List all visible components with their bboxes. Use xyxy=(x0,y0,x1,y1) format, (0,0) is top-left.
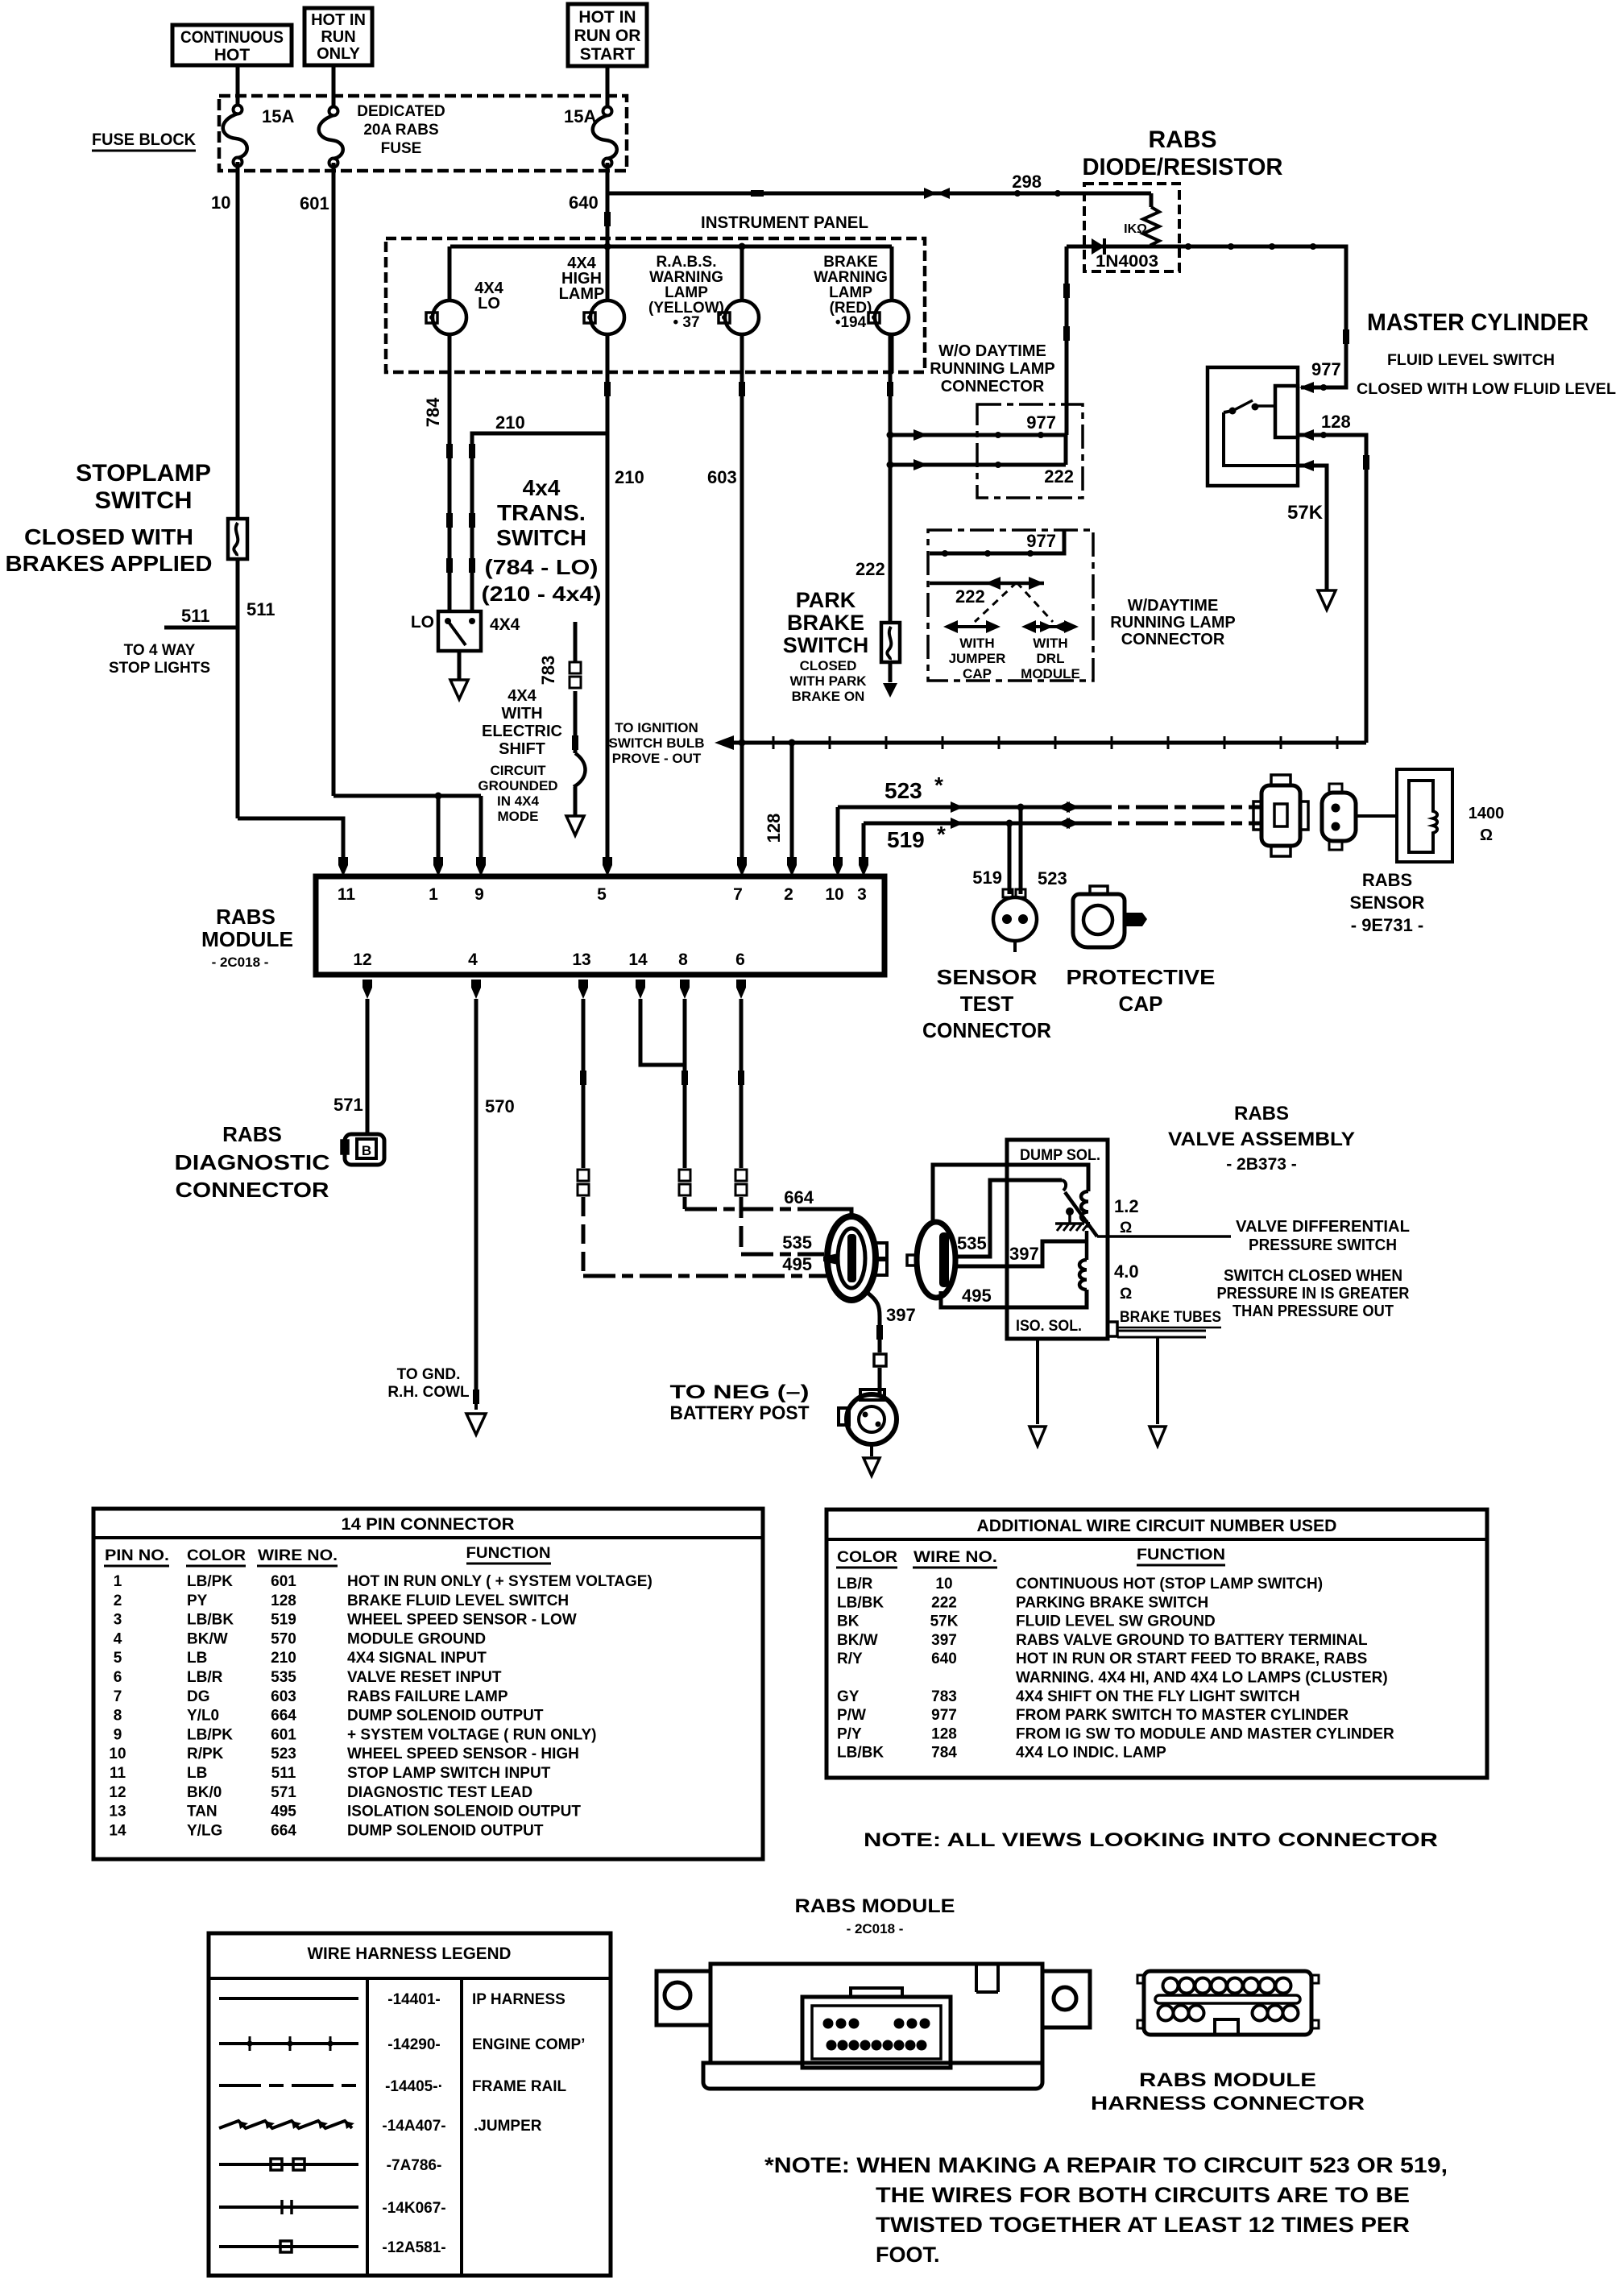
svg-text:R/PK: R/PK xyxy=(187,1746,224,1762)
with jumper cap double arrow xyxy=(943,620,1000,633)
svg-text:-14405-·: -14405-· xyxy=(385,2078,443,2095)
junction dots wire 298 xyxy=(1014,190,1021,197)
rabs module drawing xyxy=(657,1964,1090,2089)
svg-text:- 9E731 -: - 9E731 - xyxy=(1351,915,1424,935)
wire 128 horizontal xyxy=(729,741,1366,745)
svg-text:57K: 57K xyxy=(1287,502,1324,524)
resistor 1K xyxy=(1143,207,1159,246)
svg-text:• 37: • 37 xyxy=(673,314,699,331)
svg-text:BRAKE ON: BRAKE ON xyxy=(792,689,865,704)
svg-text:603: 603 xyxy=(271,1688,296,1705)
svg-text:CLOSED WITH: CLOSED WITH xyxy=(24,524,193,549)
protective cap symbol xyxy=(1073,886,1147,947)
svg-text:RABS MODULE: RABS MODULE xyxy=(1139,2069,1316,2091)
svg-text:(784 - LO): (784 - LO) xyxy=(485,555,599,579)
label 523* xyxy=(884,772,943,803)
svg-text:495: 495 xyxy=(782,1254,812,1274)
svg-text:SENSOR: SENSOR xyxy=(1350,893,1425,913)
fuse F1 15A xyxy=(223,106,247,167)
wire 977 into connector xyxy=(890,433,1065,437)
battery post ground arrow xyxy=(870,1444,873,1456)
wire 783 ground arrow xyxy=(566,816,584,835)
junction dot 601 pin1 xyxy=(435,793,442,800)
svg-text:222: 222 xyxy=(1044,466,1074,487)
label STOPLAMP SWITCH xyxy=(76,460,211,514)
svg-text:ADDITIONAL WIRE CIRCUIT NUMBER: ADDITIONAL WIRE CIRCUIT NUMBER USED xyxy=(977,1517,1337,1535)
svg-text:15A: 15A xyxy=(262,106,294,126)
brake tube nub xyxy=(1108,1322,1117,1336)
connector marks wire 664 xyxy=(681,1071,688,1085)
svg-text:CAP: CAP xyxy=(1119,992,1163,1016)
svg-text:PROTECTIVE: PROTECTIVE xyxy=(1067,965,1216,989)
legend codes xyxy=(382,1991,445,2256)
svg-text:STOP LAMP SWITCH INPUT: STOP LAMP SWITCH INPUT xyxy=(347,1765,551,1782)
wire 511 stub xyxy=(164,626,238,630)
svg-text:570: 570 xyxy=(485,1096,515,1116)
harness connector bottom pins right xyxy=(1253,2006,1299,2021)
label PROTECTIVE CAP xyxy=(1067,965,1216,1016)
sensor test connector symbol xyxy=(993,889,1037,952)
svg-text:HOT IN: HOT IN xyxy=(311,11,366,29)
svg-text:LO: LO xyxy=(411,613,434,632)
svg-text:640: 640 xyxy=(569,193,599,213)
svg-text:4x4: 4x4 xyxy=(523,475,561,500)
legend symbol frame rail (dash) xyxy=(219,2084,358,2087)
svg-text:TO NEG (–): TO NEG (–) xyxy=(670,1381,810,1403)
wire 298 into resistor xyxy=(1150,193,1154,207)
svg-text:1N4003: 1N4003 xyxy=(1096,252,1158,271)
iso solenoid coil xyxy=(1079,1260,1087,1290)
label TO NEG (-) BATTERY POST xyxy=(670,1381,810,1424)
junction dots 977 w/daytime xyxy=(942,550,948,557)
svg-text:BK/0: BK/0 xyxy=(187,1784,222,1801)
svg-text:ISO. SOL.: ISO. SOL. xyxy=(1016,1318,1082,1335)
svg-text:MODULE: MODULE xyxy=(1021,666,1080,681)
label WITH JUMPER CAP xyxy=(949,636,1006,681)
svg-text:DUMP SOLENOID OUTPUT: DUMP SOLENOID OUTPUT xyxy=(347,1822,544,1839)
svg-text:DUMP SOLENOID OUTPUT: DUMP SOLENOID OUTPUT xyxy=(347,1708,544,1725)
svg-text:FUSE BLOCK: FUSE BLOCK xyxy=(92,130,196,149)
svg-text:5: 5 xyxy=(597,885,607,904)
connector arrow 222 xyxy=(913,459,928,470)
svg-text:PIN NO.: PIN NO. xyxy=(105,1547,169,1564)
svg-text:RUNNING LAMP: RUNNING LAMP xyxy=(930,360,1055,378)
svg-text:LO: LO xyxy=(478,295,500,313)
wire continuous hot to fuse xyxy=(236,65,240,106)
wire 128 to pin 2 xyxy=(790,743,794,857)
svg-text:571: 571 xyxy=(333,1095,363,1115)
svg-text:511: 511 xyxy=(271,1765,296,1782)
svg-text:WARNING: WARNING xyxy=(649,269,723,286)
wire 523 pin 10 riser xyxy=(836,807,840,857)
svg-text:RUN: RUN xyxy=(321,28,355,46)
svg-text:WHEEL SPEED SENSOR - HIGH: WHEEL SPEED SENSOR - HIGH xyxy=(347,1746,579,1762)
svg-text:CONNECTOR: CONNECTOR xyxy=(1121,631,1225,648)
svg-text:Y/L0: Y/L0 xyxy=(187,1708,219,1725)
svg-text:397: 397 xyxy=(886,1305,916,1325)
svg-text:LB/BK: LB/BK xyxy=(187,1612,234,1629)
wire 10 to stoplamp switch xyxy=(236,162,240,519)
svg-text:WIRE HARNESS LEGEND: WIRE HARNESS LEGEND xyxy=(308,1945,512,1963)
svg-text:664: 664 xyxy=(271,1708,296,1725)
valve differential pressure switch line xyxy=(1097,1235,1231,1238)
14 pin connector table rows xyxy=(109,1573,652,1839)
svg-text:STOP LIGHTS: STOP LIGHTS xyxy=(109,660,210,677)
wire 495 dash-dot run xyxy=(583,1274,826,1278)
dashed V selector xyxy=(975,582,1053,622)
svg-text:IP HARNESS: IP HARNESS xyxy=(472,1991,565,2008)
connector marks wire 210 branch xyxy=(469,444,475,458)
svg-text:3: 3 xyxy=(114,1612,122,1629)
wire 664 dash-dot run xyxy=(685,1207,830,1211)
svg-text:535: 535 xyxy=(957,1233,987,1253)
RABS module box xyxy=(316,876,884,975)
svg-text:523: 523 xyxy=(271,1746,296,1762)
svg-text:784: 784 xyxy=(931,1745,957,1762)
label BRAKE WARNING LAMP (RED) 194 xyxy=(814,254,888,331)
svg-text:JUMPER: JUMPER xyxy=(949,651,1006,666)
svg-text:PARKING BRAKE SWITCH: PARKING BRAKE SWITCH xyxy=(1016,1594,1208,1611)
park brake ground arrow xyxy=(883,683,897,698)
svg-text:519: 519 xyxy=(271,1612,296,1629)
svg-text:SWITCH BULB: SWITCH BULB xyxy=(609,735,705,751)
svg-text:INSTRUMENT PANEL: INSTRUMENT PANEL xyxy=(701,213,868,232)
14 pin connector table xyxy=(93,1509,763,1859)
connector face pins row 1 xyxy=(823,2019,930,2029)
svg-text:W/O DAYTIME: W/O DAYTIME xyxy=(938,342,1046,360)
svg-text:RABS MODULE: RABS MODULE xyxy=(795,1895,955,1917)
svg-text:571: 571 xyxy=(271,1784,296,1801)
rabs sensor pigtail connector xyxy=(1322,784,1356,850)
valve harness connector (left oval) xyxy=(823,1216,887,1300)
svg-text:HARNESS CONNECTOR: HARNESS CONNECTOR xyxy=(1091,2093,1365,2114)
label RABS MODULE -2C018- bottom xyxy=(795,1895,955,1936)
indicator lamp brake warning xyxy=(868,246,909,373)
svg-text:NOTE: ALL VIEWS LOOKING INTO C: NOTE: ALL VIEWS LOOKING INTO CONNECTOR xyxy=(864,1829,1438,1851)
label W/DAYTIME RUNNING LAMP CONNECTOR xyxy=(1110,597,1236,648)
wire 397 to battery post xyxy=(878,1368,882,1394)
svg-text:CLOSED WITH LOW FLUID LEVEL: CLOSED WITH LOW FLUID LEVEL xyxy=(1357,381,1616,398)
label RABS MODULE -2C018- xyxy=(201,905,293,970)
svg-text:THAN PRESSURE OUT: THAN PRESSURE OUT xyxy=(1232,1303,1394,1320)
svg-text:LB/R: LB/R xyxy=(837,1576,873,1593)
connector arrow 57K xyxy=(1299,460,1314,471)
svg-text:DG: DG xyxy=(187,1688,210,1705)
svg-text:3: 3 xyxy=(857,885,867,904)
inline mark wire 298 xyxy=(751,190,764,197)
svg-text:4X4: 4X4 xyxy=(490,615,520,634)
svg-text:10: 10 xyxy=(109,1746,126,1762)
svg-text:210: 210 xyxy=(271,1650,296,1667)
master cylinder outer box xyxy=(1208,367,1298,486)
svg-text:222: 222 xyxy=(955,586,985,607)
svg-text:FUSE: FUSE xyxy=(381,140,422,157)
legend symbol IP harness (plain) xyxy=(219,1997,358,2000)
label CIRCUIT GROUNDED IN 4X4 MODE xyxy=(478,763,557,824)
wire 57K ground arrow xyxy=(1318,590,1336,610)
svg-text:WIRE NO.: WIRE NO. xyxy=(913,1549,997,1566)
svg-text:HOT IN: HOT IN xyxy=(578,8,636,27)
svg-text:TO IGNITION: TO IGNITION xyxy=(615,720,698,735)
wire to pin 1 xyxy=(437,796,441,857)
svg-text:PRESSURE SWITCH: PRESSURE SWITCH xyxy=(1249,1236,1397,1254)
svg-text:222: 222 xyxy=(931,1594,957,1611)
svg-text:128: 128 xyxy=(764,814,784,843)
svg-text:4X4 LO INDIC. LAMP: 4X4 LO INDIC. LAMP xyxy=(1016,1745,1166,1762)
label 519* xyxy=(887,822,946,852)
power source box CONTINUOUS HOT xyxy=(172,25,292,65)
connector mark wire 570 xyxy=(473,1390,479,1404)
svg-text:Ω: Ω xyxy=(1120,1286,1132,1303)
svg-text:RABS: RABS xyxy=(1234,1103,1289,1125)
svg-text:4X4: 4X4 xyxy=(507,687,536,705)
label RABS MODULE HARNESS CONNECTOR xyxy=(1091,2069,1365,2114)
junction dot 222 xyxy=(995,462,1001,468)
svg-text:2: 2 xyxy=(784,885,793,904)
svg-text:SWITCH CLOSED WHEN: SWITCH CLOSED WHEN xyxy=(1224,1267,1402,1285)
svg-text:PY: PY xyxy=(187,1593,208,1609)
svg-text:4X4 SIGNAL INPUT: 4X4 SIGNAL INPUT xyxy=(347,1650,487,1667)
valve assembly connector (right oval) xyxy=(907,1222,955,1298)
svg-text:570: 570 xyxy=(271,1630,296,1647)
svg-text:495: 495 xyxy=(962,1286,992,1306)
label TO IGNITION SWITCH BULB PROVE-OUT xyxy=(609,720,705,766)
svg-text:SHIFT: SHIFT xyxy=(499,740,545,758)
label PARK BRAKE SWITCH xyxy=(783,588,868,657)
wire to pin 9 xyxy=(479,796,483,857)
svg-text:5: 5 xyxy=(114,1650,122,1667)
junction dot 523 test drop xyxy=(1017,804,1025,811)
svg-text:BATTERY POST: BATTERY POST xyxy=(670,1402,810,1424)
wire 523 horizontal xyxy=(838,806,1079,810)
label 1400 ohm xyxy=(1469,805,1505,844)
svg-text:CIRCUIT: CIRCUIT xyxy=(491,763,547,778)
svg-text:4: 4 xyxy=(114,1630,122,1647)
svg-text:57K: 57K xyxy=(930,1613,959,1630)
svg-text:1: 1 xyxy=(114,1573,122,1590)
additional wire circuit table xyxy=(826,1510,1487,1778)
svg-text:TO 4 WAY: TO 4 WAY xyxy=(124,642,196,659)
harness connector top pin row xyxy=(1163,1978,1291,1994)
svg-text:210: 210 xyxy=(615,467,644,487)
wire 397 inside valve xyxy=(957,1241,1087,1266)
svg-text:P/Y: P/Y xyxy=(837,1725,862,1742)
svg-text:LB/PK: LB/PK xyxy=(187,1573,233,1590)
svg-text:14: 14 xyxy=(109,1822,126,1839)
svg-text:BK: BK xyxy=(837,1613,860,1630)
label CLOSED WITH BRAKES APPLIED xyxy=(6,524,213,576)
junction dot 128/603 xyxy=(739,739,746,747)
label BRAKE TUBES xyxy=(1118,1309,1221,1327)
wire harness legend table xyxy=(209,1933,611,2276)
wire 511 below switch xyxy=(236,559,240,818)
svg-text:519: 519 xyxy=(887,827,925,852)
lamp feed bus xyxy=(450,245,892,249)
svg-text:9: 9 xyxy=(474,885,484,904)
svg-text:9: 9 xyxy=(114,1726,122,1743)
svg-text:FLUID LEVEL SWITCH: FLUID LEVEL SWITCH xyxy=(1387,352,1555,369)
svg-text:Y/LG: Y/LG xyxy=(187,1822,222,1839)
svg-text:FROM PARK SWITCH TO MASTER CYL: FROM PARK SWITCH TO MASTER CYLINDER xyxy=(1016,1707,1348,1724)
connector squares wire 783 xyxy=(570,662,581,673)
label RABS DIODE/RESISTOR xyxy=(1083,126,1283,180)
svg-text:14: 14 xyxy=(628,951,648,969)
w/o daytime connector box xyxy=(977,404,1083,498)
svg-text:RABS: RABS xyxy=(1362,870,1412,890)
svg-text:DIAGNOSTIC: DIAGNOSTIC xyxy=(175,1150,330,1174)
with DRL module double arrow xyxy=(1021,620,1079,633)
junction dots on diode output xyxy=(1185,243,1191,250)
svg-text:B: B xyxy=(362,1143,371,1158)
harness connector bottom pins left xyxy=(1158,2006,1204,2021)
svg-text:MASTER CYLINDER: MASTER CYLINDER xyxy=(1367,309,1589,336)
svg-text:- 2C018 -: - 2C018 - xyxy=(847,1921,904,1936)
svg-text:BRAKES APPLIED: BRAKES APPLIED xyxy=(6,551,213,576)
svg-text:523: 523 xyxy=(1038,868,1067,888)
harness connector slot xyxy=(1155,1995,1300,2003)
inline connectors on 523 xyxy=(951,801,963,813)
svg-text:RUN OR: RUN OR xyxy=(574,27,641,45)
svg-text:-14290-: -14290- xyxy=(387,2036,441,2053)
svg-text:PRESSURE IN IS GREATER: PRESSURE IN IS GREATER xyxy=(1217,1285,1410,1303)
dump coil tail xyxy=(1087,1222,1090,1228)
wire 523 dash-dot to sensor xyxy=(1079,806,1260,810)
svg-text:.JUMPER: .JUMPER xyxy=(474,2118,542,2135)
switch contact hook xyxy=(1062,1180,1066,1191)
connector mark wire 640 xyxy=(604,212,611,226)
svg-text:DIAGNOSTIC TEST LEAD: DIAGNOSTIC TEST LEAD xyxy=(347,1784,532,1801)
connector face pins row 2 xyxy=(826,2040,927,2051)
jumper vertical 222-977 xyxy=(1064,435,1068,465)
engine comp ticks on 128 xyxy=(771,736,776,749)
svg-text:COLOR: COLOR xyxy=(187,1547,246,1564)
svg-text:•194: •194 xyxy=(835,314,867,331)
wire 535 run xyxy=(741,1253,824,1257)
connector arrow 128 xyxy=(1299,429,1314,441)
connector arrow 977 xyxy=(913,429,928,441)
svg-text:128: 128 xyxy=(271,1593,296,1609)
svg-text:DIODE/RESISTOR: DIODE/RESISTOR xyxy=(1083,154,1283,180)
svg-text:MODE: MODE xyxy=(498,809,539,824)
diode symbol 1N4003 xyxy=(1092,238,1104,255)
indicator lamp 4x4 lo xyxy=(426,246,466,373)
wire 784 xyxy=(448,334,452,611)
svg-text:14 PIN CONNECTOR: 14 PIN CONNECTOR xyxy=(342,1515,515,1534)
dump solenoid coil xyxy=(1081,1191,1088,1222)
svg-text:LB: LB xyxy=(187,1765,207,1782)
pressure switch arm xyxy=(1065,1192,1097,1236)
svg-text:GY: GY xyxy=(837,1688,860,1705)
label RABS SENSOR 9E731 xyxy=(1350,870,1425,935)
module connector face xyxy=(802,1988,951,2068)
label RABS VALVE ASSEMBLY -2B373- xyxy=(1168,1103,1355,1174)
wire 640 down to panel xyxy=(606,163,610,301)
svg-text:1: 1 xyxy=(429,885,438,904)
dump valve drain arrow xyxy=(1036,1339,1039,1424)
junction dot 977 master cylinder xyxy=(1320,384,1327,391)
connector mark wire 210 xyxy=(604,382,611,396)
svg-text:FLUID LEVEL SW GROUND: FLUID LEVEL SW GROUND xyxy=(1016,1613,1216,1630)
connector mark on 977 drop xyxy=(1343,329,1349,344)
connector arrow into master cylinder 977 xyxy=(1299,382,1314,393)
svg-text:511: 511 xyxy=(246,599,275,619)
svg-text:HOT IN RUN OR START FEED TO BR: HOT IN RUN OR START FEED TO BRAKE, RABS xyxy=(1016,1651,1367,1667)
rabs sensor xyxy=(1397,769,1452,862)
svg-text:+ SYSTEM VOLTAGE ( RUN ONLY): + SYSTEM VOLTAGE ( RUN ONLY) xyxy=(347,1726,596,1743)
svg-text:210: 210 xyxy=(495,412,525,433)
connector marks vertical 977 xyxy=(1063,284,1070,298)
svg-text:RABS VALVE GROUND TO BATTERY T: RABS VALVE GROUND TO BATTERY TERMINAL xyxy=(1016,1632,1368,1649)
svg-text:523: 523 xyxy=(884,778,922,803)
pin 14 wire 664 jog xyxy=(636,980,645,999)
svg-text:8: 8 xyxy=(114,1708,122,1725)
svg-text:WARNING: WARNING xyxy=(814,269,888,286)
connector mark wire 397 xyxy=(876,1325,883,1340)
junction dot bus 640 xyxy=(604,243,611,251)
svg-text:ISOLATION SOLENOID OUTPUT: ISOLATION SOLENOID OUTPUT xyxy=(347,1804,581,1820)
svg-text:WITH: WITH xyxy=(1033,636,1067,651)
svg-text:(210 - 4x4): (210 - 4x4) xyxy=(482,582,602,606)
svg-text:HOT: HOT xyxy=(214,46,251,64)
connector square wire 397 xyxy=(874,1354,886,1366)
legend symbol 12A581 (one square) xyxy=(219,2241,358,2252)
svg-text:LAMP: LAMP xyxy=(665,284,708,301)
label 4X4 LO xyxy=(474,280,503,313)
wire 298 to diode/resistor xyxy=(607,192,1151,196)
wire 128 from master cylinder xyxy=(1298,435,1366,743)
svg-text:4X4 SHIFT ON THE FLY LIGHT SWI: 4X4 SHIFT ON THE FLY LIGHT SWITCH xyxy=(1016,1688,1300,1705)
svg-text:DEDICATED: DEDICATED xyxy=(357,103,445,120)
svg-text:664: 664 xyxy=(784,1187,814,1207)
svg-text:ELECTRIC: ELECTRIC xyxy=(482,723,562,740)
wire 519 pin 3 riser xyxy=(862,823,866,857)
svg-text:SWITCH: SWITCH xyxy=(783,633,868,657)
svg-text:2: 2 xyxy=(114,1593,122,1609)
w/daytime connector box xyxy=(928,530,1093,681)
svg-text:977: 977 xyxy=(931,1707,957,1724)
pin 8 wire 664 xyxy=(680,980,690,999)
iso valve drain arrow xyxy=(1156,1337,1159,1424)
connector mark wire 783 xyxy=(572,735,578,750)
wire 977/222 brake lamp to park brake switch xyxy=(889,334,893,623)
svg-text:MODULE GROUND: MODULE GROUND xyxy=(347,1630,486,1647)
fuse F3 15A xyxy=(593,107,617,168)
wire 495 into iso solenoid xyxy=(941,1290,1087,1307)
power source box HOT IN RUN OR START xyxy=(568,4,647,66)
svg-text:640: 640 xyxy=(931,1651,957,1667)
legend functions xyxy=(472,1991,585,2135)
svg-text:4.0: 4.0 xyxy=(1114,1261,1139,1282)
svg-text:PARK: PARK xyxy=(796,588,856,612)
svg-text:FRAME RAIL: FRAME RAIL xyxy=(472,2078,567,2095)
legend symbol engine comp (ticked) xyxy=(219,2036,358,2051)
wire 511 to module pin 11 xyxy=(238,818,343,857)
connector mark wire 603 xyxy=(739,382,745,396)
inline connectors on 519 xyxy=(951,818,963,829)
svg-text:535: 535 xyxy=(782,1232,812,1253)
ground hatch xyxy=(1055,1224,1088,1231)
svg-text:CONNECTOR: CONNECTOR xyxy=(176,1178,329,1202)
wire 601 down xyxy=(332,163,336,796)
svg-text:- 2B373 -: - 2B373 - xyxy=(1226,1155,1297,1174)
label 4X4 WITH ELECTRIC SHIFT xyxy=(482,687,562,758)
svg-text:BK/W: BK/W xyxy=(837,1632,878,1649)
svg-text:128: 128 xyxy=(1321,412,1351,432)
svg-text:603: 603 xyxy=(707,467,737,487)
legend symbol 7A786 (two squares) xyxy=(219,2159,358,2170)
svg-text:VALVE DIFFERENTIAL: VALVE DIFFERENTIAL xyxy=(1236,1218,1410,1236)
svg-text:CONNECTOR: CONNECTOR xyxy=(922,1018,1051,1042)
